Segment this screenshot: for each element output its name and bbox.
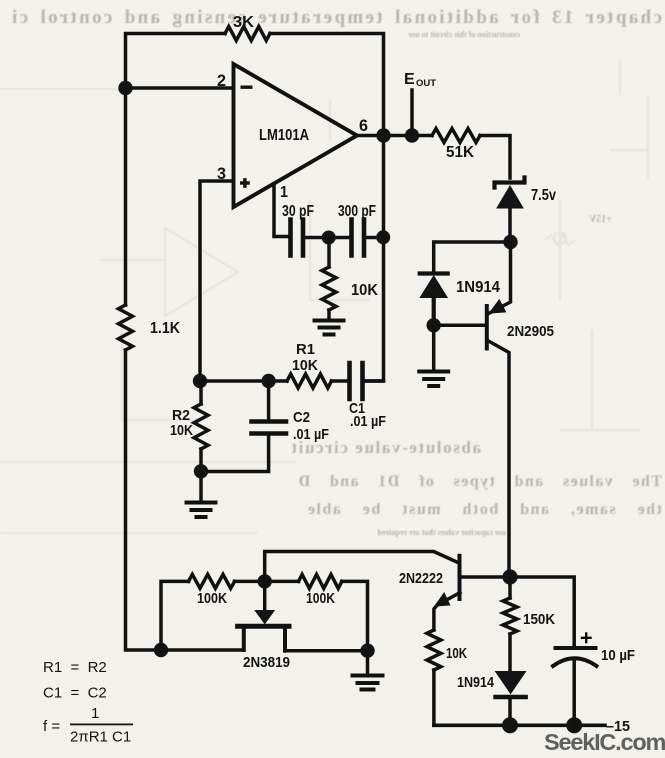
wire output pin 6 bbox=[357, 134, 432, 138]
wire inverting input pin 2 bbox=[126, 86, 234, 90]
wire gate node to 2N2222 base bbox=[265, 552, 458, 582]
wire node to 1N914 top bbox=[434, 242, 511, 271]
svg-text:51K: 51K bbox=[446, 144, 475, 161]
resistor 100K left bbox=[189, 574, 235, 588]
wire 51K to zener bbox=[480, 136, 510, 179]
node feedback junction bbox=[118, 81, 132, 95]
ground under 10K bbox=[315, 321, 344, 335]
svg-text:LM101A: LM101A bbox=[259, 127, 309, 144]
diode 1N914 upper bbox=[420, 274, 448, 298]
svg-text:300 pF: 300 pF bbox=[338, 203, 376, 220]
wire base of 2N2905 bbox=[434, 324, 485, 328]
svg-text:use capacitor values that are: use capacitor values that are required bbox=[377, 528, 506, 537]
wire drain node to ground bbox=[366, 651, 370, 673]
diode 1N914 lower bbox=[496, 672, 526, 698]
node R2 bottom junction bbox=[194, 464, 208, 478]
resistor 10K compensation bbox=[322, 267, 336, 310]
capacitor 30 pF bbox=[291, 220, 304, 256]
node junction under op-amp bbox=[322, 231, 336, 245]
wire Eout stub bbox=[410, 90, 414, 136]
capacitor 10uF electrolytic bbox=[553, 634, 597, 726]
svg-text:10 µF: 10 µF bbox=[601, 647, 635, 664]
resistor 100K right bbox=[299, 574, 342, 588]
svg-text:chapter 13 for additional temp: chapter 13 for additional temperature se… bbox=[10, 7, 662, 28]
svg-text:R1 = R2: R1 = R2 bbox=[43, 659, 107, 676]
ground under 2N3819 bbox=[353, 676, 383, 690]
svg-text:the same, and both must be abl: the same, and both must be able bbox=[306, 501, 662, 518]
wire pin 1 lead bbox=[274, 184, 289, 237]
resistor 3K bbox=[225, 27, 270, 41]
resistor R2 10K bbox=[194, 381, 208, 472]
wire right rail bbox=[364, 136, 384, 382]
wire C1 to right rail bbox=[364, 379, 384, 383]
svg-text:30 pF: 30 pF bbox=[282, 203, 314, 220]
resistor 10K bias bbox=[427, 630, 441, 670]
wire R2 to ground bbox=[199, 471, 203, 500]
wire 100K left to center node bbox=[235, 580, 265, 584]
capacitor 300 pF bbox=[352, 220, 365, 256]
wire 10K to ground bbox=[327, 310, 331, 319]
wire collector node to cap bbox=[510, 577, 574, 647]
minus sign pin 2 bbox=[241, 86, 253, 89]
svg-text:+15V: +15V bbox=[588, 214, 612, 225]
resistor R1 10K bbox=[287, 374, 332, 388]
capacitor C2 .01uF bbox=[201, 381, 286, 472]
ground under 1N914 bbox=[419, 372, 448, 387]
wire 1N914 to node bbox=[432, 298, 436, 326]
wire node to 300pF bbox=[329, 236, 350, 240]
svg-text:.01 µF: .01 µF bbox=[293, 426, 329, 443]
resistor 51K bbox=[432, 129, 480, 143]
svg-text:C2: C2 bbox=[293, 409, 310, 426]
node gate junction bbox=[258, 574, 272, 588]
wire R1 row bbox=[200, 379, 287, 383]
zener diode 7.5v bbox=[495, 178, 525, 209]
svg-text:2N2905: 2N2905 bbox=[507, 323, 554, 340]
resistor 1.1K bbox=[119, 305, 133, 350]
wire R1 to C1 bbox=[332, 379, 349, 383]
svg-text:10K: 10K bbox=[446, 645, 467, 662]
svg-text:3: 3 bbox=[217, 165, 226, 183]
svg-text:2: 2 bbox=[217, 72, 226, 90]
svg-text:C1 = C2: C1 = C2 bbox=[43, 685, 107, 702]
node output junction bbox=[376, 128, 390, 142]
svg-text:1: 1 bbox=[280, 184, 288, 201]
node cap bottom junction bbox=[566, 717, 582, 733]
wire top feedback left segment bbox=[126, 34, 226, 89]
wire bottom-left rail bend bbox=[154, 643, 168, 657]
wire node to 10K compensation resistor bbox=[327, 238, 331, 268]
svg-text:10K: 10K bbox=[170, 422, 193, 439]
svg-text:1N914: 1N914 bbox=[456, 279, 500, 296]
wire R1 row left node bbox=[193, 374, 207, 388]
svg-text:7.5v: 7.5v bbox=[531, 187, 556, 204]
svg-text:SeekIC.com: SeekIC.com bbox=[544, 729, 665, 755]
svg-text:2N3819: 2N3819 bbox=[243, 654, 290, 671]
svg-text:150K: 150K bbox=[523, 611, 555, 628]
wire left rail bbox=[126, 88, 162, 650]
wire bottom-left horizontal left bbox=[161, 648, 244, 652]
ground under R2 bbox=[187, 503, 216, 518]
wire zener to node bbox=[508, 208, 512, 242]
svg-text:The values and types of D1 and: The values and types of D1 and D bbox=[297, 473, 662, 490]
svg-text:R1: R1 bbox=[296, 341, 315, 358]
svg-text:construction of this circuit t: construction of this circuit to use bbox=[408, 30, 520, 39]
plus sign pin 3 bbox=[240, 178, 250, 188]
wire bottom-left horizontal right bbox=[285, 649, 368, 653]
svg-text:2πR1 C1: 2πR1 C1 bbox=[70, 729, 131, 746]
transistor Q3 2N3819 JFET bbox=[238, 581, 289, 650]
resistor 150K bbox=[503, 577, 517, 634]
wire non-inverting input pin 3 bbox=[200, 181, 234, 381]
wire 100K left riser bbox=[161, 581, 189, 650]
node base junction bbox=[427, 318, 441, 332]
svg-text:10K: 10K bbox=[292, 357, 318, 374]
svg-text:1.1K: 1.1K bbox=[150, 320, 181, 337]
svg-text:100K: 100K bbox=[306, 590, 335, 607]
wire 150K to 1N914 bbox=[508, 634, 512, 671]
node R1-C2 junction bbox=[261, 374, 275, 388]
wire top feedback right segment bbox=[270, 34, 384, 136]
capacitor C1 .01uF bbox=[350, 363, 363, 399]
svg-text:.01 µF: .01 µF bbox=[350, 413, 386, 430]
svg-text:6: 6 bbox=[359, 117, 368, 135]
svg-text:f =: f = bbox=[43, 718, 60, 735]
op-amp U1 LM101A triangle bbox=[234, 64, 358, 207]
node drain junction bbox=[360, 644, 374, 658]
wire 30pF to node bbox=[304, 236, 329, 240]
svg-text:E: E bbox=[404, 71, 415, 88]
svg-text:1: 1 bbox=[91, 705, 99, 722]
wire bottom rail bbox=[434, 723, 605, 727]
wire 1N914 to bottom rail bbox=[508, 699, 512, 725]
svg-text:OUT: OUT bbox=[416, 78, 436, 89]
node zener-emitter junction bbox=[503, 235, 517, 249]
svg-text:100K: 100K bbox=[197, 590, 227, 607]
node junction on right rail bbox=[376, 230, 390, 244]
svg-text:3K: 3K bbox=[233, 14, 255, 31]
node collector junction bbox=[502, 569, 517, 584]
svg-text:10K: 10K bbox=[351, 282, 379, 299]
wire 10K to bottom rail bbox=[432, 670, 436, 725]
svg-text:1N914: 1N914 bbox=[457, 674, 495, 691]
wire 300pF to right rail bbox=[365, 236, 383, 240]
transistor Q2 2N2222 bbox=[434, 556, 510, 630]
wire center node to 100K right bbox=[265, 580, 299, 584]
wire node to ground bbox=[432, 325, 436, 369]
svg-text:2N2222: 2N2222 bbox=[399, 570, 443, 587]
transistor Q1 2N2905 bbox=[487, 242, 511, 577]
wire 100K right down bbox=[342, 581, 368, 650]
node Eout junction bbox=[405, 128, 419, 142]
node 1N914 bottom junction bbox=[502, 717, 518, 733]
